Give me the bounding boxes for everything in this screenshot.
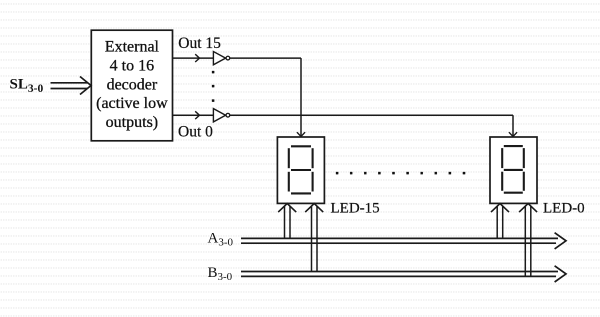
- LED-15 seven-segment display: [277, 137, 324, 203]
- bus SL3-0 double-line arrow into decoder: [51, 77, 92, 95]
- svg-text:(active low: (active low: [96, 95, 168, 112]
- bus B3-0 double-line with arrow: [241, 266, 566, 282]
- digit 8 segments of LED-15: [289, 146, 313, 193]
- label Out 15: [178, 35, 221, 52]
- LED-0 seven-segment display: [490, 137, 537, 203]
- svg-text:A3-0: A3-0: [208, 230, 234, 248]
- label B3-0: [208, 265, 233, 283]
- bus connector LED-0 right (from bus B): [519, 204, 537, 277]
- svg-text:Out 15: Out 15: [178, 35, 221, 52]
- inverter U3 (Out 0, active-low bubble): [213, 109, 229, 122]
- digit 8 segments of LED-0: [502, 146, 524, 193]
- wire Out15 from decoder to inverter: [173, 54, 214, 62]
- label Out 0: [178, 124, 213, 141]
- bus A3-0 double-line with arrow: [241, 233, 566, 249]
- svg-text:outputs): outputs): [106, 114, 158, 131]
- inverter U2 (Out 15, active-low bubble): [213, 52, 229, 65]
- bus connector LED-15 right (from bus B): [305, 204, 323, 272]
- label A3-0: [208, 230, 234, 248]
- svg-text:decoder: decoder: [107, 76, 158, 93]
- wire Out0 from decoder to inverter: [173, 111, 214, 119]
- svg-text:LED-15: LED-15: [331, 201, 380, 217]
- decoder U1 (External 4 to 16 decoder): [91, 30, 172, 141]
- svg-text:B3-0: B3-0: [208, 265, 233, 283]
- label LED-15: [331, 201, 380, 217]
- svg-text:4 to 16: 4 to 16: [110, 57, 154, 74]
- label LED-0: [543, 201, 585, 217]
- svg-text:LED-0: LED-0: [543, 201, 585, 217]
- svg-text:Out 0: Out 0: [178, 124, 213, 141]
- wire from inverter U3 to LED-0 (right then down): [230, 115, 517, 136]
- label SL3-0: [10, 76, 44, 95]
- svg-text:External: External: [105, 39, 160, 56]
- vertical ellipsis dots between Out 15 and Out 0: [212, 71, 214, 102]
- svg-text:SL3-0: SL3-0: [10, 76, 44, 95]
- horizontal ellipsis dots between LED-15 and LED-0: [336, 172, 465, 174]
- wire from inverter U2 to LED-15 (right then down): [230, 58, 305, 136]
- bus connector LED-0 left (from bus A): [491, 204, 509, 239]
- bus connector LED-15 left (from bus A): [278, 204, 296, 239]
